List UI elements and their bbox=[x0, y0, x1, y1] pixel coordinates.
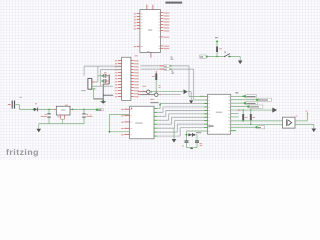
svg-text:fritzing: fritzing bbox=[6, 147, 39, 157]
